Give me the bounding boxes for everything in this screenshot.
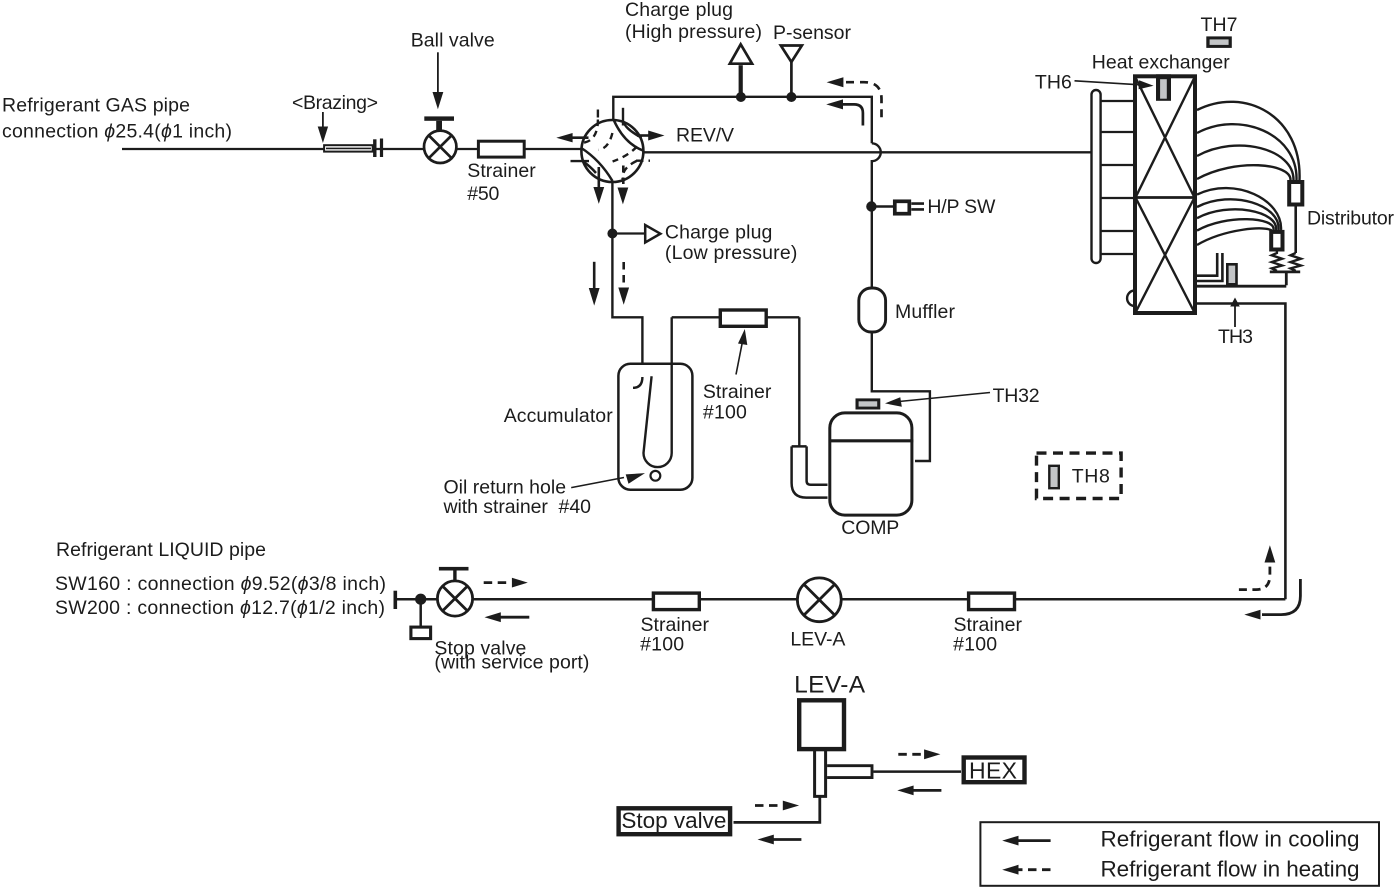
svg-text:(Low pressure): (Low pressure): [665, 242, 798, 264]
wire lower header into heat exchanger: [1197, 285, 1286, 288]
flow arrow dashed up at corner: [1239, 566, 1270, 590]
legend dashed arrow heating: [1014, 868, 1051, 871]
ball valve BV1 handle: [424, 116, 454, 120]
4-way valve REV/V body: [581, 120, 643, 182]
strainer #100 liquid left: [653, 593, 699, 610]
svg-text:<Brazing>: <Brazing>: [292, 92, 378, 114]
node junction charge plug: [736, 92, 746, 102]
compressor COMP body: [830, 413, 912, 515]
flow arrow dashed right near stop valve box: [755, 804, 782, 807]
node junction P-sensor: [786, 92, 796, 102]
heat exchanger header pipe: [1092, 90, 1101, 263]
flow arrow cooling solid curved top right: [843, 104, 863, 125]
heat exchanger bottom section cross: [1136, 199, 1194, 312]
liquid pipe end tick: [393, 591, 397, 609]
heat exchanger section divider: [1135, 196, 1195, 199]
thermistor TH8 dashed box: [1037, 453, 1122, 498]
leader arrow to TH3: [1234, 305, 1236, 327]
svg-text:Oil return hole: Oil return hole: [444, 477, 567, 499]
thermistor TH3: [1227, 264, 1236, 284]
heat exchanger top section cross: [1136, 79, 1194, 197]
REV/V dashed passage top-left outer arc: [584, 120, 598, 143]
stop valve SV1 handle: [439, 567, 469, 571]
node junction charge plug low: [607, 229, 617, 239]
flow arrow solid curved left at corner: [1262, 579, 1300, 615]
wire accumulator outlet to strainer: [672, 316, 719, 318]
REV/V top-left dashed port: [597, 110, 599, 119]
svg-text:#100: #100: [703, 402, 747, 424]
REV/V dashed passage bottom-right outer arc: [623, 161, 637, 182]
svg-text:Charge plug: Charge plug: [625, 0, 733, 21]
wire branch to charge plug low: [612, 232, 644, 234]
svg-text:COMP: COMP: [841, 517, 899, 539]
wire main line REV/V to heat exchanger: [643, 151, 1092, 153]
flow arrow solid down on suction line: [593, 262, 596, 288]
REV/V left stub port: [571, 160, 590, 162]
flow arrow dashed down on suction line: [622, 262, 625, 285]
REV/V solid passage top-right inner arc: [623, 121, 642, 138]
wire liquid pipe to stop valve: [395, 598, 438, 601]
heat exchanger left return bend: [1127, 291, 1134, 307]
flow arrow solid left near HEX: [913, 789, 942, 792]
REV/V left flow arrow: [572, 136, 589, 139]
wire ball valve to strainer: [456, 148, 478, 150]
leader arrow to TH32: [899, 393, 990, 402]
svg-text:REV/V: REV/V: [676, 124, 734, 146]
svg-text:Heat exchanger: Heat exchanger: [1092, 52, 1231, 74]
accumulator inlet tube J-hook: [633, 377, 642, 388]
svg-text:#100: #100: [640, 634, 684, 656]
wire strainer to LEV-A: [699, 598, 798, 601]
svg-text:LEV-A: LEV-A: [794, 672, 866, 699]
svg-text:Strainer: Strainer: [641, 614, 710, 636]
strainer #100 liquid right: [969, 593, 1015, 610]
flow arrow heating dashed curved top right: [846, 82, 882, 122]
accumulator vessel: [618, 364, 692, 490]
HEX box: [964, 758, 1025, 783]
distributor lower capillary arcs: [1197, 188, 1281, 230]
svg-text:Distributor: Distributor: [1307, 207, 1395, 229]
svg-text:(High pressure): (High pressure): [625, 21, 762, 43]
flow arrow solid left near stop valve box: [773, 838, 802, 841]
leader arrow to ball valve: [437, 52, 439, 93]
brazing union bar 2: [380, 139, 383, 158]
pressure switch H/P SW: [895, 201, 910, 213]
svg-text:(with service port): (with service port): [434, 652, 589, 674]
TH3 pocket pipe bend: [1197, 253, 1222, 281]
wire top frame discharge line: [613, 97, 872, 144]
svg-text:#50: #50: [467, 183, 499, 205]
svg-text:Stop valve: Stop valve: [621, 808, 726, 833]
REV/V dashed passage bottom-right inner arc: [613, 147, 637, 162]
distributor upper body: [1289, 182, 1302, 205]
wire strainer right to corner: [1015, 598, 1286, 601]
svg-text:P-sensor: P-sensor: [773, 22, 852, 44]
svg-text:SW160 : connection ϕ9.52(ϕ3/8: SW160 : connection ϕ9.52(ϕ3/8 inch): [55, 573, 386, 595]
brazing sleeve symbol: [324, 145, 373, 151]
distributor top capillary arcs: [1197, 102, 1300, 180]
heat exchanger divider tube: [1101, 197, 1135, 199]
flow arrow solid down below REV/V: [597, 167, 600, 188]
REV/V solid passage bottom-left outer arc: [581, 148, 612, 181]
svg-text:connection ϕ25.4(ϕ1 inch): connection ϕ25.4(ϕ1 inch): [2, 121, 232, 143]
thermistor TH32: [856, 398, 881, 409]
svg-text:LEV-A: LEV-A: [790, 629, 845, 651]
wire hop of vertical over main line: [872, 143, 881, 288]
leader arrow to TH6: [1075, 81, 1141, 85]
charge plug high pressure symbol: [730, 44, 752, 63]
wire LEV-A stem to stop valve box: [734, 796, 820, 822]
thermistor TH7: [1206, 36, 1232, 48]
svg-text:H/P SW: H/P SW: [927, 196, 996, 218]
thermistor TH8 sensor: [1049, 466, 1059, 488]
wire stop valve to strainer: [473, 598, 653, 601]
svg-text:TH3: TH3: [1218, 326, 1253, 348]
leader arrow to strainer 100: [736, 343, 742, 375]
wire gas pipe left run: [122, 148, 423, 150]
P-sensor symbol: [781, 46, 802, 63]
distributor lower body: [1271, 232, 1282, 250]
compressor suction elbow pipe: [792, 446, 828, 497]
LEV-A detail side branch pipe: [827, 766, 872, 778]
thermistor TH6 pocket: [1156, 74, 1171, 101]
svg-text:Strainer: Strainer: [467, 160, 536, 182]
flow arrow dashed right near HEX: [898, 753, 923, 756]
node junction H/P SW: [866, 201, 876, 211]
ball valve BV1 body: [424, 131, 456, 163]
wire heat exchanger outlet to liquid line: [1197, 304, 1285, 600]
REV/V solid passage top-right outer arc: [614, 120, 644, 151]
svg-text:with strainer #40: with strainer #40: [443, 496, 592, 518]
accumulator outlet U-tube: [644, 317, 672, 467]
LEV-A detail stem pipe: [813, 751, 827, 796]
Stop valve box: [619, 808, 731, 834]
REV/V right dashed stub port: [636, 159, 650, 161]
svg-text:Charge plug: Charge plug: [665, 221, 773, 243]
wire capillary coils to lower header: [1270, 272, 1300, 285]
flow arrow dashed right at stop valve: [484, 581, 511, 584]
REV/V solid passage bottom-left inner arc: [583, 161, 596, 173]
charge plug low pressure symbol: [645, 225, 660, 243]
REV/V dashed passage top-left inner arc: [599, 133, 613, 150]
svg-text:SW200 : connection ϕ12.7(ϕ1/2: SW200 : connection ϕ12.7(ϕ1/2 inch): [55, 597, 385, 619]
svg-text:Strainer: Strainer: [954, 614, 1023, 636]
svg-text:Strainer: Strainer: [703, 381, 772, 403]
wire branch to H/P SW: [871, 205, 893, 207]
svg-text:Accumulator: Accumulator: [504, 405, 614, 427]
REV/V right flow arrow: [637, 134, 649, 137]
heat exchanger fin tubes: [1101, 101, 1135, 254]
svg-text:TH7: TH7: [1201, 14, 1238, 36]
svg-text:Refrigerant GAS pipe: Refrigerant GAS pipe: [2, 94, 190, 116]
wire distributor upper to capillary coil: [1294, 207, 1297, 254]
svg-text:TH6: TH6: [1035, 72, 1072, 94]
wire suction line REV/V down to accumulator: [612, 182, 642, 377]
strainer #50: [478, 141, 524, 157]
leader arrow to oil return hole: [571, 478, 624, 488]
wire LEV-A to strainer right: [841, 598, 968, 601]
svg-text:Refrigerant flow in cooling: Refrigerant flow in cooling: [1101, 826, 1360, 851]
svg-text:Muffler: Muffler: [895, 301, 956, 323]
flow arrow solid left at stop valve: [500, 616, 530, 619]
leader arrow to brazing: [322, 112, 324, 128]
svg-text:Refrigerant flow in heating: Refrigerant flow in heating: [1101, 857, 1360, 882]
compressor weld band: [829, 439, 913, 442]
strainer #100 suction: [720, 310, 766, 326]
muffler M1: [859, 288, 886, 332]
svg-text:TH32: TH32: [993, 385, 1040, 407]
heat exchanger body: [1135, 76, 1195, 313]
svg-text:Refrigerant LIQUID pipe: Refrigerant LIQUID pipe: [56, 539, 266, 561]
wire branch to HEX box: [873, 770, 961, 773]
svg-text:HEX: HEX: [969, 758, 1017, 784]
expansion valve LEV-A body: [797, 578, 841, 622]
wire muffler to compressor discharge: [872, 332, 930, 461]
node junction service port: [415, 594, 426, 605]
REV/V top stub port: [622, 108, 624, 126]
svg-text:Ball valve: Ball valve: [411, 30, 495, 52]
service port cap: [411, 627, 431, 639]
flow arrow dashed down below REV/V: [622, 166, 625, 185]
wire strainer to REV/V: [524, 148, 583, 150]
wire to service port: [419, 599, 422, 626]
oil return hole: [651, 471, 661, 481]
LEV-A detail valve body: [799, 700, 844, 749]
legend solid arrow cooling: [1016, 839, 1051, 842]
stop valve SV1 body: [437, 581, 472, 616]
brazing union bar 1: [373, 139, 376, 157]
svg-text:TH8: TH8: [1072, 465, 1110, 487]
capillary coil left: [1272, 250, 1282, 271]
svg-text:#100: #100: [953, 634, 997, 656]
capillary coil right: [1291, 253, 1301, 271]
wire strainer to compressor suction: [766, 317, 799, 445]
legend box: [980, 822, 1379, 886]
